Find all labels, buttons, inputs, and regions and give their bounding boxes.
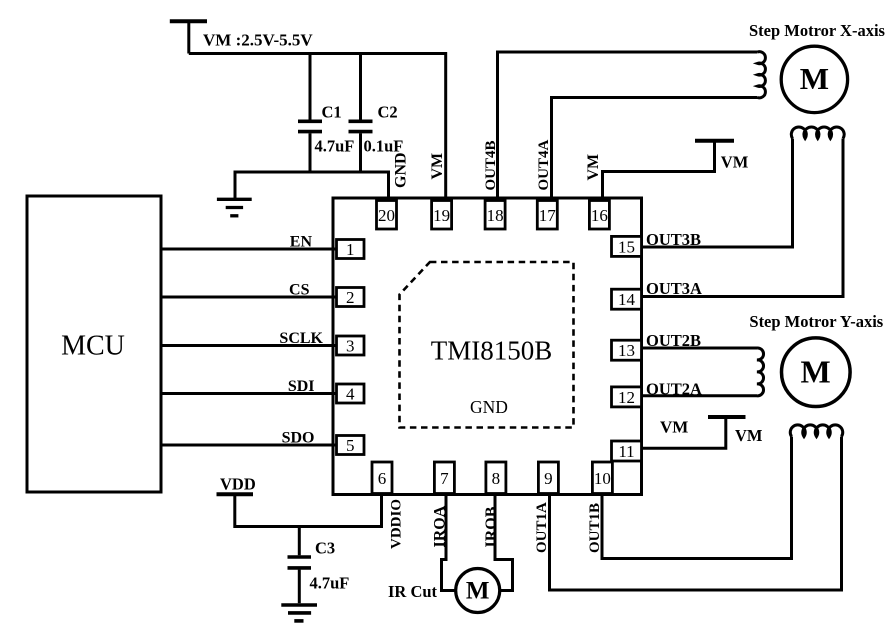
inductor X motor winding 1 [758,52,766,98]
svg-text:SCLK: SCLK [279,330,323,347]
svg-text:4.7uF: 4.7uF [310,574,350,593]
pin pad 6 [372,462,392,494]
svg-text:C3: C3 [315,539,335,558]
svg-text:M: M [800,61,829,96]
inductor X motor winding 2 [791,127,844,139]
svg-text:5: 5 [346,436,355,455]
svg-text:3: 3 [346,337,355,356]
pin pad 15 [612,236,642,256]
svg-text:VM: VM [735,426,763,445]
wire GND net: pin 20 up, left, down to ground [235,172,389,201]
svg-text:12: 12 [618,388,635,407]
svg-text:IROB: IROB [483,506,500,547]
pin pad 16 [589,201,609,230]
pin pad 19 [432,201,452,230]
motor M (IR Cut) [456,569,500,613]
wire VM rail to pin 19 [189,54,446,202]
svg-text:SDO: SDO [282,430,315,447]
wire MCU to pin 3 SCLK [161,344,337,347]
wire MCU to pin 5 SDO [161,444,337,447]
svg-text:VDDIO: VDDIO [389,499,405,549]
svg-text:GND: GND [470,397,508,417]
svg-text:1: 1 [346,240,355,259]
svg-text:IR Cut: IR Cut [388,582,438,601]
pin pad 9 [538,462,558,494]
pin pad 14 [612,289,642,309]
svg-text:EN: EN [290,234,313,251]
svg-text:18: 18 [487,206,504,225]
wire pin 7 IROA to IR Cut motor [442,494,457,591]
ground symbol (under C3) [281,605,317,621]
svg-text:9: 9 [544,469,553,488]
svg-text:4.7uF: 4.7uF [315,137,355,156]
pin pad 1 [337,240,365,260]
motor M (Step Motor X-axis) [781,46,847,112]
wire MCU to pin 4 SDI [161,392,337,395]
svg-text:C1: C1 [322,103,342,122]
svg-text:14: 14 [618,290,636,309]
svg-text:SDI: SDI [288,378,315,395]
svg-text:GND: GND [393,152,410,188]
svg-text:M: M [466,578,490,605]
svg-text:7: 7 [440,469,449,488]
IC exposed pad (dashed, chamfered) [400,262,574,428]
wire VDD to pin 6 [235,494,382,527]
svg-text:CS: CS [289,282,310,299]
svg-text:OUT4B: OUT4B [483,140,499,190]
svg-text:4: 4 [346,385,355,404]
ground symbol (top, under C1/C2) [217,199,252,216]
svg-text:13: 13 [618,341,635,360]
wire pin 13 OUT2B to Y motor coil [642,347,758,350]
svg-text:VM :2.5V-5.5V: VM :2.5V-5.5V [203,31,313,50]
pin pad 18 [485,201,505,230]
capacitor C2 [349,54,373,173]
svg-text:20: 20 [378,206,395,225]
svg-text:15: 15 [618,237,635,256]
pin pad 7 [434,462,454,494]
svg-text:OUT3A: OUT3A [646,279,702,298]
wire VM to pin 11 [642,417,726,448]
wire pin 9 OUT1A to Y motor winding 2 [550,437,842,591]
wire pin 12 OUT2A to Y motor coil [642,394,758,397]
svg-text:MCU: MCU [61,331,125,362]
power VM symbol (mid right) [695,139,734,143]
svg-text:2: 2 [346,288,355,307]
svg-text:Step Motror Y-axis: Step Motror Y-axis [749,312,883,331]
pin pad 17 [537,201,557,230]
svg-text:16: 16 [591,206,608,225]
pin pad 13 [612,340,642,360]
pin pad 4 [337,384,365,404]
svg-text:19: 19 [433,206,450,225]
svg-text:VM: VM [660,418,688,437]
svg-text:IROA: IROA [432,505,449,547]
svg-text:OUT1B: OUT1B [587,503,603,553]
svg-text:M: M [800,353,830,389]
svg-text:11: 11 [618,442,634,461]
svg-text:Step Motror X-axis: Step Motror X-axis [749,21,886,40]
power VM symbol (lower right) [708,415,746,419]
power VM supply bar (top left) [170,19,207,23]
pin pad 11 [612,441,642,461]
pin pad 20 [377,201,397,230]
pin pad 12 [612,387,642,407]
wire pin 17 OUT4A to X motor coil [552,98,758,201]
pin pad 10 [592,462,612,494]
wire VM supply stem [187,21,190,53]
pin pad 3 [337,336,365,356]
capacitor C1 [298,54,322,173]
wire pin 15 OUT3B to X motor winding 2 [642,139,793,248]
svg-text:OUT1A: OUT1A [534,502,550,553]
power VDD symbol [217,492,254,496]
svg-text:OUT2B: OUT2B [646,331,701,350]
svg-text:VM: VM [585,154,602,181]
svg-text:6: 6 [378,469,387,488]
svg-text:OUT4A: OUT4A [536,139,552,190]
pin pad 2 [337,288,365,308]
svg-text:VM: VM [429,153,446,180]
IC U1 TMI8150B package outline [333,198,642,495]
svg-text:OUT2A: OUT2A [646,380,702,399]
capacitor C3 [288,527,312,604]
svg-text:OUT3B: OUT3B [646,230,701,249]
pin pad 8 [486,462,506,494]
svg-text:17: 17 [539,206,557,225]
svg-text:TMI8150B: TMI8150B [431,336,553,366]
wire MCU to pin 2 CS [161,296,337,299]
inductor Y motor winding 2 [790,425,843,437]
svg-text:VM: VM [721,153,749,172]
pin pad 5 [337,436,365,456]
wire pin 14 OUT3A to X motor winding 2 [642,139,844,297]
svg-text:VDD: VDD [220,475,256,494]
wire MCU to pin 1 EN [161,248,337,251]
wire pin 10 OUT1B to Y motor winding 2 [602,437,792,559]
svg-text:C2: C2 [378,103,398,122]
svg-text:10: 10 [594,469,611,488]
MCU box [27,196,161,492]
wire pin 8 IROB to IR Cut motor [495,494,513,591]
motor M (Step Motor Y-axis) [782,338,851,407]
wire VM to pin 16 [603,141,715,201]
inductor Y motor winding 1 [757,348,764,396]
wire pin 18 OUT4B to X motor coil [498,52,758,201]
svg-text:8: 8 [492,469,501,488]
